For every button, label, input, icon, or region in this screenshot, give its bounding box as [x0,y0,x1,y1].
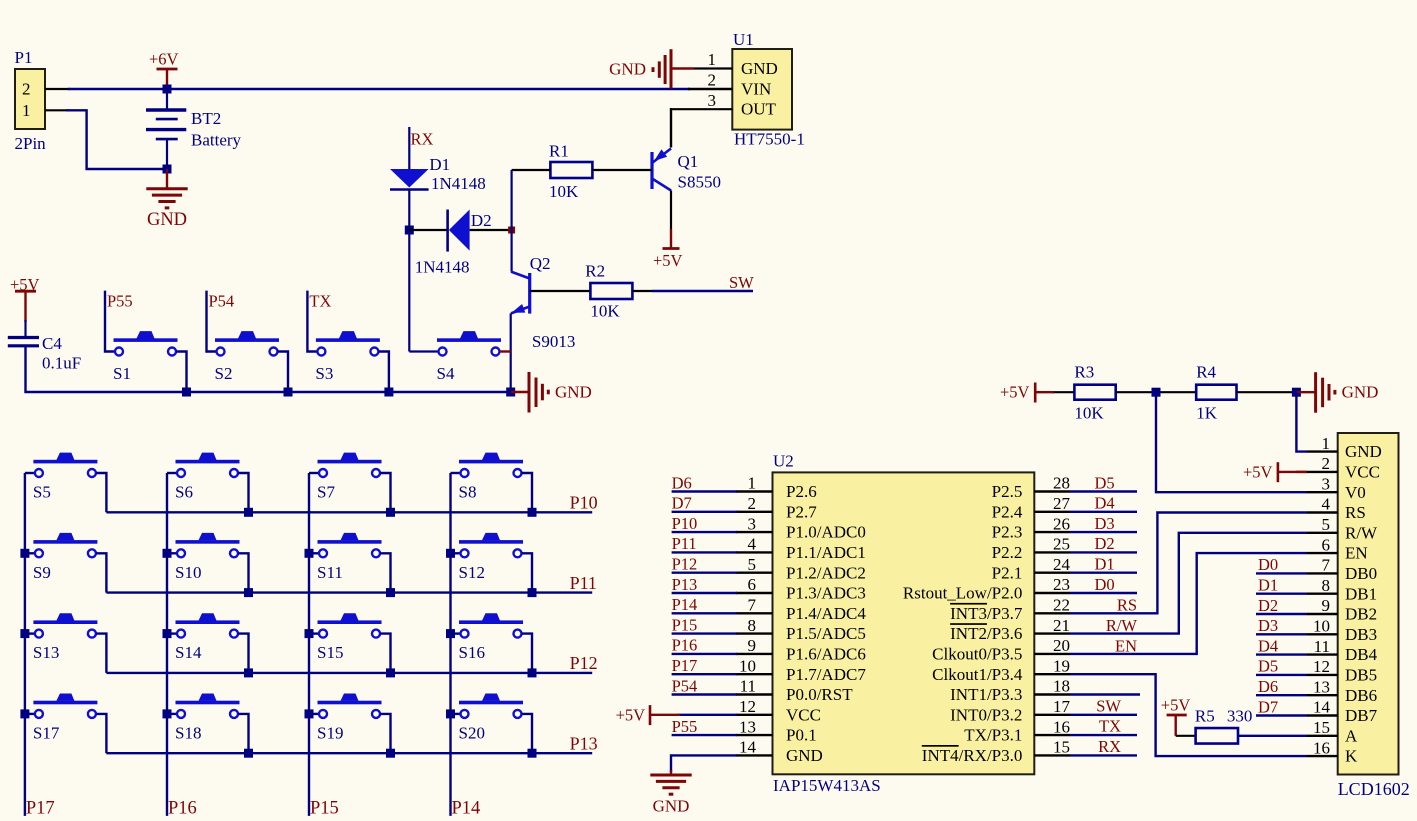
svg-text:P12: P12 [570,653,598,673]
ground symbol (sideways) [1314,372,1317,413]
wire net D1 at LCD pin 8 [1256,593,1307,595]
svg-text:P14: P14 [452,799,481,819]
power +5V (horizontal) [1277,462,1280,482]
svg-text:S11: S11 [317,563,343,582]
svg-text:P0.1: P0.1 [786,726,817,745]
wire R2 to SW [632,290,652,292]
svg-text:DB2: DB2 [1345,605,1377,624]
pin 19 of U2 (Clkout1/P3.4) [1034,673,1070,675]
pin 17 of U2 (INT0/P3.2) [1034,714,1070,716]
wire column 1 to S9 [25,552,35,554]
pin 4 of U2 (P1.1/ADC1) [736,551,773,553]
svg-text:C4: C4 [42,334,62,353]
svg-text:2Pin: 2Pin [15,134,47,153]
IC U2 IAP15W413AS [773,472,1035,774]
svg-text:P12: P12 [672,555,698,574]
wire column 1 to S5 [25,472,35,474]
row wire P12 [106,672,592,674]
resistor R3 [1074,385,1115,400]
svg-text:P13: P13 [672,575,698,594]
svg-text:9: 9 [748,636,757,655]
junction S12/P11 [528,588,537,597]
junction S2/bus [284,388,293,397]
resistor R4 [1196,385,1236,400]
svg-text:SW: SW [729,273,754,292]
svg-text:BT2: BT2 [191,109,221,128]
switch S10 [176,540,240,544]
wire net TX at U2 pin 16 [1070,734,1137,736]
+5V at R5 [1174,715,1176,736]
pin 7 of LCD1602 (DB0) [1307,572,1338,574]
pin 1 of U2 (P2.6) [736,490,773,492]
svg-text:22: 22 [1053,596,1070,615]
switch S15 [318,620,382,624]
svg-text:P1: P1 [15,48,33,67]
svg-text:13: 13 [1313,677,1330,696]
svg-text:P1.1/ADC1: P1.1/ADC1 [786,543,866,562]
svg-text:10K: 10K [549,182,579,201]
svg-text:D6: D6 [1258,677,1278,696]
svg-text:6: 6 [748,575,757,594]
svg-text:P54: P54 [672,676,698,695]
capacitor C4 0.1uF [8,336,39,339]
junction R4/LCD GND [1292,388,1301,397]
wire +5V to R3 [1052,391,1074,393]
pin 1 of U1 (GND) [694,67,732,69]
resistor R2 [590,283,632,299]
row wire P10 [106,511,592,513]
svg-text:R/W: R/W [1345,523,1378,542]
junction S16/P12 [528,668,537,677]
switch S3 [316,338,380,342]
battery BT2 [166,89,168,110]
junction column 3 row 3 [305,629,314,638]
svg-text:15: 15 [1053,738,1070,757]
switch S4 [437,338,501,342]
power +V +5V [15,290,36,293]
svg-text:INT4/RX/P3.0: INT4/RX/P3.0 [922,746,1023,765]
svg-text:S8550: S8550 [678,173,721,192]
wire column 4 to S16 [451,632,461,634]
svg-text:3: 3 [708,91,717,110]
wire S6 to row P10 [238,473,248,512]
row wire P11 [106,591,592,593]
svg-text:10K: 10K [590,302,620,321]
svg-text:2: 2 [22,80,31,99]
wire +6V net: P1.2 to U1 VIN [68,88,690,90]
wire net D1 at U2 pin 24 [1070,572,1137,574]
svg-text:Clkout1/P3.4: Clkout1/P3.4 [932,665,1023,684]
ground symbol (sideways, mirrored) [670,49,673,88]
wire net P14 to U2 pin 7 [672,612,737,614]
wire S20 to row P13 [522,714,532,753]
wire net D3 at LCD pin 10 [1256,633,1307,635]
pin 16 of LCD1602 (K) [1307,755,1338,757]
switch S5 [33,460,97,464]
column wire P16 [166,473,168,816]
wire net D4 at LCD pin 11 [1256,653,1307,655]
svg-text:16: 16 [1313,738,1330,757]
wire stub U2 pin 18 [1070,693,1140,695]
wire R1 down to Q2 collector [511,170,513,272]
svg-text:R2: R2 [585,262,605,281]
svg-text:14: 14 [1313,698,1331,717]
svg-text:2: 2 [1322,454,1331,473]
svg-text:R5: R5 [1195,707,1215,726]
svg-text:4: 4 [1322,495,1331,514]
wire column 2 to S18 [167,713,177,715]
svg-text:25: 25 [1053,535,1070,554]
svg-text:2: 2 [708,71,717,90]
svg-text:P16: P16 [168,799,197,819]
pin 20 of U2 (Clkout0/P3.5) [1034,653,1070,655]
svg-text:D0: D0 [1095,575,1115,594]
svg-text:10K: 10K [1074,404,1104,423]
svg-text:INT0/P3.2: INT0/P3.2 [950,705,1022,724]
svg-text:D1: D1 [429,155,450,174]
svg-text:GND: GND [653,797,690,816]
resistor R5 330 [1196,728,1238,744]
resistor R1 [550,162,592,178]
svg-text:RX: RX [411,130,434,149]
switch S2 [215,338,279,342]
wire net D0 at U2 pin 23 [1070,592,1137,594]
ground symbol (earth) [650,774,691,777]
switch S8 [459,460,523,464]
svg-text:16: 16 [1053,717,1070,736]
svg-text:RS: RS [1345,503,1366,522]
pin 2 of LCD1602 (VCC) [1307,471,1338,473]
pin 3 of U1 (OUT) [670,108,732,110]
svg-text:1N4148: 1N4148 [415,258,470,277]
switch S12 [459,540,523,544]
svg-text:TX: TX [1099,717,1121,736]
wire S15 to row P12 [380,634,390,673]
junction S6/P10 [244,508,253,517]
svg-text:P2.1: P2.1 [992,563,1023,582]
svg-text:13: 13 [739,717,756,736]
svg-text:OUT: OUT [741,100,777,119]
pin 3 of U2 (P1.0/ADC0) [736,531,773,533]
svg-text:D5: D5 [1258,657,1278,676]
wire S5 to row P10 [96,473,106,512]
svg-text:6: 6 [1322,535,1331,554]
svg-text:Clkout0/P3.5: Clkout0/P3.5 [932,645,1022,664]
wire net RX at U2 pin 15 [1070,754,1137,756]
svg-text:11: 11 [740,677,756,696]
svg-text:17: 17 [1053,697,1071,716]
ground stem right of bus [511,391,529,393]
svg-text:P1.7/ADC7: P1.7/ADC7 [786,665,866,684]
wire S16 to row P12 [522,634,532,673]
connector LCD1602 [1338,433,1399,775]
svg-text:INT2/P3.6: INT2/P3.6 [950,624,1022,643]
wire column 2 to S6 [167,472,177,474]
svg-text:P2.3: P2.3 [992,523,1023,542]
junction R3/R4/V0 [1152,388,1161,397]
transistor Q1 S8550 [650,152,653,189]
svg-text:14: 14 [739,738,757,757]
svg-text:S13: S13 [33,643,59,662]
svg-text:S16: S16 [459,643,485,662]
svg-text:P13: P13 [570,734,598,754]
svg-text:S8: S8 [459,483,477,502]
svg-text:S2: S2 [215,364,233,383]
power +V +6V [157,68,178,71]
svg-text:3: 3 [1322,474,1331,493]
switch S11 [318,540,382,544]
node R1/D2/Q2 collector [508,227,515,234]
svg-text:18: 18 [1053,677,1070,696]
svg-text:P1.3/ADC3: P1.3/ADC3 [786,584,866,603]
svg-text:S15: S15 [317,643,343,662]
svg-text:P0.0/RST: P0.0/RST [786,685,853,704]
junction S14/P12 [244,668,253,677]
wire D1 cathode down [408,190,410,231]
junction column 4 row 3 [446,629,455,638]
ground stem below battery [166,169,168,189]
svg-text:+5V: +5V [616,705,646,724]
net label P55 stub [105,291,115,352]
svg-text:21: 21 [1053,616,1070,635]
wire R1 right to Q1 base [592,169,652,171]
wire column 2 to S14 [167,632,177,634]
svg-text:Battery: Battery [191,131,242,150]
pin 13 of LCD1602 (DB6) [1307,694,1338,696]
wire net D7 at LCD pin 14 [1256,714,1307,716]
svg-text:23: 23 [1053,575,1070,594]
svg-text:S6: S6 [175,483,193,502]
svg-text:P1.0/ADC0: P1.0/ADC0 [786,523,866,542]
wire net P12 to U2 pin 5 [672,572,737,574]
svg-text:K: K [1345,747,1358,766]
svg-text:P15: P15 [310,799,339,819]
svg-text:12: 12 [739,697,756,716]
svg-text:RX: RX [1098,737,1121,756]
pin 6 of U2 (P1.3/ADC3) [736,592,773,594]
svg-text:GND: GND [1345,442,1382,461]
pin 6 of LCD1602 (EN) [1307,552,1338,554]
wire Q2 emitter down to bus [510,313,512,392]
svg-text:TX: TX [309,292,331,311]
wire RS: U2 pin22 to LCD pin4 [1070,513,1307,614]
diode D2 1N4148 [409,229,447,231]
connector P1 [15,69,45,129]
svg-text:VCC: VCC [1345,463,1380,482]
svg-text:SW: SW [1096,696,1121,715]
svg-text:330: 330 [1227,707,1253,726]
wire junction down to S4 [408,230,410,352]
wire R4 to ground [1237,391,1297,393]
svg-text:D0: D0 [1258,555,1278,574]
pin 11 of U2 (P0.0/RST) [736,693,773,695]
+5V at LCD VCC [1296,471,1307,473]
wire Q1 collector to +5V [670,191,672,230]
svg-text:D4: D4 [1095,494,1115,513]
svg-text:S12: S12 [459,563,485,582]
svg-text:P17: P17 [26,799,55,819]
svg-text:S9: S9 [33,563,51,582]
pin 10 of U2 (P1.7/ADC7) [736,673,773,675]
wire S13 to row P12 [96,634,106,673]
svg-text:IAP15W413AS: IAP15W413AS [773,776,881,795]
wire column 4 to S20 [451,713,461,715]
wire S19 to row P13 [380,714,390,753]
svg-text:D2: D2 [1095,534,1115,553]
junction column 4 row 2 [446,549,455,558]
ground symbol (earth) [146,187,187,190]
pin 15 of U2 (INT4/RX/P3.0) [1034,754,1070,756]
power +5V (horizontal) [649,705,652,725]
wire EN: U2 pin20 to LCD pin6 [1070,553,1307,654]
switch S6 [176,460,240,464]
svg-text:D1: D1 [1258,576,1278,595]
junction column 1 row 2 [20,549,29,558]
pin 2 of P1 [45,88,70,90]
net label P54 stub [207,291,217,352]
svg-text:S17: S17 [33,723,60,742]
svg-text:INT1/P3.3: INT1/P3.3 [950,685,1022,704]
svg-text:D5: D5 [1095,473,1115,492]
pin 21 of U2 (INT2/P3.6) [1034,632,1070,634]
svg-text:P2.5: P2.5 [992,482,1023,501]
svg-text:D3: D3 [1258,616,1278,635]
wire column 4 to S12 [451,552,461,554]
svg-text:R3: R3 [1074,363,1094,382]
wire K: U2 pin19 to LCD pin16 [1070,674,1307,756]
wire net P15 to U2 pin 8 [672,632,737,634]
wire S8 to row P10 [522,473,532,512]
wire net P16 to U2 pin 9 [672,653,737,655]
wire net D5 at U2 pin 28 [1070,490,1137,492]
svg-text:D4: D4 [1258,636,1278,655]
wire C4 down to ground bus [26,346,511,392]
pin 5 of U2 (P1.2/ADC2) [736,572,773,574]
pin 22 of U2 (INT3/P3.7) [1034,612,1070,614]
wire column 1 to S13 [25,632,35,634]
wire S11 to row P11 [380,553,390,592]
svg-text:1K: 1K [1196,404,1218,423]
svg-text:Q2: Q2 [530,254,551,273]
svg-text:S10: S10 [175,563,201,582]
power +5V (horizontal) [1034,383,1037,403]
wire net P54 to U2 pin 11 [672,693,737,695]
pin 12 of U2 (VCC) [736,714,773,716]
svg-text:1: 1 [1322,434,1331,453]
pin 10 of LCD1602 (DB3) [1307,633,1338,635]
pin 26 of U2 (P2.3) [1034,531,1070,533]
switch S1 [114,338,178,342]
svg-text:12: 12 [1313,657,1330,676]
junction S10/P11 [244,588,253,597]
wire D1 branch to S4 [409,350,438,352]
svg-text:HT7550-1: HT7550-1 [734,130,805,149]
switch S9 [33,540,97,544]
wire column 2 to S10 [167,552,177,554]
junction column 2 row 2 [163,549,172,558]
pin 7 of U2 (P1.4/ADC4) [736,612,773,614]
svg-text:S9013: S9013 [532,332,575,351]
wire S1 to ground bus [176,352,186,393]
wire S7 to row P10 [380,473,390,512]
row wire P13 [106,752,592,754]
svg-text:20: 20 [1053,636,1070,655]
junction D1/D2 [405,226,414,235]
junction S20/P13 [528,749,537,758]
svg-text:A: A [1345,726,1358,745]
svg-text:24: 24 [1053,555,1071,574]
pin 27 of U2 (P2.4) [1034,511,1070,513]
pin 3 of LCD1602 (V0) [1307,491,1338,493]
svg-text:DB1: DB1 [1345,584,1377,603]
svg-text:EN: EN [1115,637,1137,656]
switch S13 [33,620,97,624]
column wire P14 [449,473,451,816]
junction column 4 row 4 [446,709,455,718]
wire +5V to U2 pin 12 [678,714,737,716]
svg-text:P54: P54 [209,292,235,311]
net label RX [408,127,410,169]
wire S10 to row P11 [238,553,248,592]
pin 9 of LCD1602 (DB2) [1307,613,1338,615]
svg-text:27: 27 [1053,494,1071,513]
svg-text:U2: U2 [773,452,794,471]
wire net SW at U2 pin 17 [1070,714,1137,716]
svg-text:RS: RS [1117,596,1137,615]
svg-text:S7: S7 [317,483,335,502]
wire S2 to ground bus [278,352,288,393]
svg-text:LCD1602: LCD1602 [1338,779,1410,799]
ground at U1 pin 1 [671,67,694,69]
pin 4 of LCD1602 (RS) [1307,511,1338,513]
wire S12 to row P11 [522,553,532,592]
pin 12 of LCD1602 (DB5) [1307,674,1338,676]
transistor Q2 S9013 [528,273,531,314]
svg-text:GND: GND [147,210,187,230]
svg-text:Rstout_Low/P2.0: Rstout_Low/P2.0 [903,584,1023,603]
wire +5V to C4 [24,320,26,337]
svg-text:INT3/P3.7: INT3/P3.7 [950,604,1023,623]
wire P1.1 to battery minus [66,110,167,169]
wire net P13 to U2 pin 6 [672,592,737,594]
junction at battery bottom [163,165,172,174]
junction S4 branch / ground bus [506,388,515,397]
net label TX stub [307,291,317,352]
pin 8 of LCD1602 (DB1) [1307,593,1338,595]
svg-text:+5V: +5V [1243,463,1273,482]
wire +5V to R5 [1176,735,1196,737]
svg-text:P10: P10 [570,493,598,513]
svg-text:+5V: +5V [653,251,683,270]
switch S16 [459,620,523,624]
svg-text:15: 15 [1313,718,1330,737]
svg-text:D2: D2 [1258,596,1278,615]
svg-text:1N4148: 1N4148 [431,174,486,193]
svg-text:V0: V0 [1345,483,1366,502]
svg-text:P2.6: P2.6 [786,482,817,501]
wire column 3 to S11 [309,552,319,554]
svg-text:9: 9 [1322,596,1331,615]
pin 24 of U2 (P2.1) [1034,572,1070,574]
svg-text:DB7: DB7 [1345,706,1378,725]
svg-text:R1: R1 [549,142,569,161]
svg-text:P14: P14 [672,595,698,614]
diode D1 1N4148 [390,169,429,188]
switch S18 [176,701,240,705]
junction column 3 row 4 [305,709,314,718]
svg-text:D7: D7 [1258,697,1278,716]
pin 14 of U2 (GND) [736,754,773,756]
